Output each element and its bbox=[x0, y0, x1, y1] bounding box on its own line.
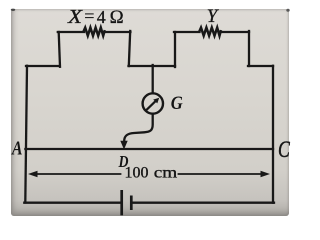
wire: bottom battery loop left bbox=[24, 202, 121, 204]
wire: Y-box left leg bbox=[174, 32, 176, 67]
wire: left step horizontal bbox=[26, 65, 60, 67]
wire: bottom battery loop right bbox=[132, 202, 274, 204]
wire: galvanometer top stem bbox=[152, 65, 154, 93]
wire: X top right segment bbox=[104, 31, 130, 33]
galvanometer needle arrowhead bbox=[153, 98, 159, 104]
svg-text:100: 100 bbox=[125, 165, 149, 182]
wire: right bus bbox=[248, 65, 273, 67]
wire: centre bus bbox=[129, 65, 176, 67]
wire: Y top right segment bbox=[221, 31, 250, 33]
wire: Y top left segment bbox=[174, 31, 200, 33]
galvanometer G circle bbox=[143, 93, 163, 113]
wire: galvanometer bottom stem and hook to D bbox=[124, 114, 153, 143]
svg-text:A: A bbox=[10, 138, 22, 160]
dimension line left part bbox=[33, 173, 121, 175]
scan speck top-right corner bbox=[286, 9, 289, 12]
svg-text:4: 4 bbox=[97, 7, 106, 27]
dimension arrowhead left bbox=[28, 171, 38, 177]
arrowhead pointing down to D bbox=[120, 141, 127, 150]
wire: outer right vertical C branch bbox=[272, 66, 274, 203]
resistor Y zigzag bbox=[199, 28, 220, 36]
wire: Y-box right leg bbox=[248, 31, 250, 66]
resistor X zigzag bbox=[84, 28, 105, 36]
svg-text:=: = bbox=[84, 6, 94, 26]
battery long plate bbox=[120, 190, 123, 215]
wire: outer left vertical A branch bbox=[25, 66, 27, 203]
slide wire A-C bbox=[25, 148, 273, 150]
scanned grey panel background bbox=[11, 9, 289, 216]
svg-text:cm: cm bbox=[154, 165, 178, 182]
svg-text:C: C bbox=[278, 137, 290, 162]
svg-text:G: G bbox=[171, 93, 183, 114]
svg-text:X: X bbox=[67, 6, 83, 28]
scan speck top-left bbox=[11, 9, 15, 11]
wire: X top left segment bbox=[58, 31, 84, 33]
svg-text:Y: Y bbox=[207, 6, 220, 27]
dimension arrowhead right bbox=[261, 171, 271, 177]
dimension line right part bbox=[179, 173, 266, 175]
wire: X-box right leg bbox=[129, 31, 130, 66]
galvanometer needle bbox=[146, 101, 156, 111]
wire: X-box left leg bbox=[59, 32, 60, 67]
svg-text:Ω: Ω bbox=[110, 7, 124, 28]
battery short plate bbox=[130, 196, 133, 211]
